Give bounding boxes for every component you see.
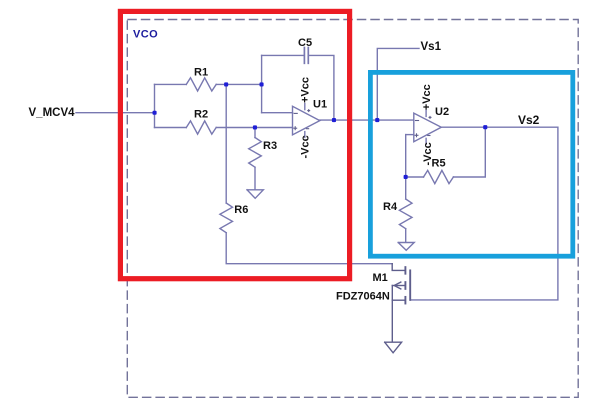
svg-text:+Vcc: +Vcc [300,77,312,103]
junction dots [153,82,488,179]
wire M1 source to ground [391,286,393,342]
M1 bulk lead with arrow [392,285,404,287]
U2 input polarity marks [415,116,432,137]
U1 V+ pin stub [304,104,306,110]
wire R2 row left [155,127,187,129]
U1 V- pin stub [304,132,306,138]
capacitor C5 [304,48,308,64]
U2 V- pin stub [425,138,427,144]
svg-text:V_MCV4: V_MCV4 [29,107,76,119]
svg-text:+Vcc: +Vcc [421,84,433,110]
ground below M1 [385,342,402,353]
resistor R3 stem top [254,128,256,138]
wire Vs1 tap [377,48,419,120]
wire C5 node vertical [261,55,263,112]
M1 gate bar [409,270,411,300]
U2 V+ pin stub [425,110,427,116]
wire R1 row left [155,83,187,85]
wire R5 left [406,176,424,178]
node C5 junction [260,82,264,86]
svg-text:R2: R2 [194,108,208,120]
svg-text:Vs1: Vs1 [421,41,442,53]
resistor R2 [186,121,216,134]
op-amp U1 [293,106,320,135]
svg-text:-Vcc: -Vcc [300,135,312,158]
wire U2 output to Vs2 [410,127,558,300]
M1 drain lead [392,264,404,271]
resistor R3 [249,138,262,168]
node R3 junction [253,125,257,129]
M1 channel tick bulk [404,282,406,289]
node R1/R6 junction [224,82,228,86]
resistor R3 stem bottom [254,167,256,189]
red annotation box VCO [120,11,349,278]
blue annotation box [370,72,572,256]
wire R6 to M1 drain loop [226,233,392,264]
wire U1 output [320,119,414,121]
wire C5 left [262,54,304,56]
svg-text:C5: C5 [298,37,312,49]
wire V_MCV4 input [76,112,155,114]
svg-text:R3: R3 [263,140,277,152]
resistor R1 [186,78,216,91]
wire input branch vertical [154,84,156,127]
svg-text:FDZ7064N: FDZ7064N [336,291,390,303]
dashed schematic border [127,20,578,398]
wire U2 plus input [406,134,414,136]
M1 source lead [392,299,404,301]
wire R6 column [225,84,227,203]
svg-text:R1: R1 [194,67,208,79]
svg-text:R4: R4 [383,201,398,213]
wire R1 to node [216,83,261,85]
ground below R3 [247,190,263,199]
svg-text:Vs2: Vs2 [518,113,540,127]
node R4/R5 junction [404,175,408,179]
wire C5 right feedback [309,55,334,120]
resistor R4 [399,199,412,229]
transistor M1 [385,264,411,353]
wire R2 to U1 plus input [216,127,292,129]
wire R5 right up to output [453,127,485,177]
M1 channel tick source [404,297,406,304]
svg-text:R6: R6 [234,204,248,216]
svg-text:M1: M1 [373,272,388,284]
wire U1 minus input [262,112,293,114]
node Vs1 junction [375,118,379,122]
wire U2 feedback vertical [405,135,407,177]
op-amp U2 [414,113,442,142]
svg-text:U1: U1 [313,99,327,111]
M1 channel tick drain [404,267,406,274]
svg-text:VCO: VCO [133,29,158,41]
node U1 output junction [332,118,336,122]
node input junction [153,111,157,115]
ground below R4 [398,243,414,251]
resistor R5 [424,170,454,183]
svg-text:U2: U2 [435,106,449,118]
resistor R6 [220,203,233,233]
node U2 output junction [483,125,487,129]
svg-text:-Vcc: -Vcc [422,142,434,165]
resistor R4 stem top [405,177,407,199]
resistor R4 stem bottom [405,229,407,242]
U1 input polarity marks [293,109,310,130]
